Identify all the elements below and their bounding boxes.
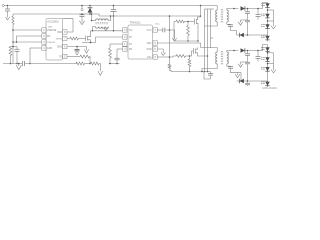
diode D8 return [240,79,244,83]
choke L1 core [96,23,109,24]
node pin1 [12,29,14,31]
resistor R7 [80,55,90,58]
ground bank2 rail [238,62,243,67]
node bank2 C9 [247,50,249,52]
transformer T1 sec bottom lead [226,22,228,24]
transformer T1 core [221,9,223,23]
wire TE net [67,56,80,58]
wire Q1 drain rail [200,6,202,18]
U1 pin 4 box [42,46,46,50]
svg-text:GND: GND [47,48,52,50]
U1 pin labels right [56,32,63,59]
wire bottom bus mid2 [85,63,91,65]
node rail A bottom [207,71,209,73]
wire U1 top to right [63,19,74,32]
ground U2 [161,50,165,55]
U2 pin 1 box [123,42,127,46]
ground bank1 rail [238,20,243,25]
node row2 pin3 [92,30,94,32]
wire U2 pin2 net [96,36,123,38]
resistor R6 gate [70,37,79,40]
svg-text:TPS40211: TPS40211 [130,22,142,25]
resistor R13 [176,55,186,58]
wire bank2 feed [245,45,268,51]
terminal TP1 [81,6,83,11]
resistor R11 [176,20,185,23]
ground bank2 path [235,73,240,78]
svg-text:UCC28910: UCC28910 [47,21,59,24]
U2 labels right [146,30,152,59]
node T2 prim bus [201,71,203,73]
U2 labels left [129,30,133,51]
U1 pin 6 box [63,44,67,48]
transistor Q1 [195,17,201,41]
capacitor C3 series [23,61,25,66]
node pin4 bus [29,63,31,65]
wire bottom bus left [3,63,22,65]
node R2 bus [10,63,12,65]
wire gate2 feed [170,56,177,57]
node choke left [91,13,93,15]
wire rail aux [169,16,171,64]
input terminal J1 [2,4,4,6]
node bank1 C7b [257,8,259,10]
capacitor C6 series [163,28,165,33]
node Q1 drain [200,5,202,7]
node gnd main [18,63,20,65]
node Q3 source [90,42,92,44]
ground input [5,15,9,20]
node choke right [110,15,112,17]
node R8 bus [109,63,111,65]
ground taps 1 [271,23,276,29]
wire pin2 net [17,36,42,42]
wire C4 ext [113,16,115,31]
node R14 bus [189,71,191,73]
wire LED column 2 [267,45,269,88]
choke L1 top winding [96,19,109,21]
wire VCC net [157,29,162,31]
wire sense riser [95,37,97,43]
resistor R4 bus [91,62,100,65]
text Bias [156,24,161,26]
node C14 bus [81,13,83,15]
ground R4 [98,71,103,75]
node D1 top [89,5,91,7]
capacitor C15 snub [227,24,237,35]
transformer T2 core [221,51,223,65]
U1 pin 2 box [42,34,46,38]
transformer T2 primary bottom [202,64,217,72]
U2 pin 6 box [153,47,157,51]
node D1 bottom [89,13,91,15]
wire gate1 feed [174,21,176,23]
wire choke row1 stub [92,20,96,22]
node Q2 source rail [207,55,209,57]
resistor R2 [9,47,17,64]
wire gate2 [186,51,194,56]
node pin2 tie [16,41,18,43]
transformer T2 right winding [227,52,229,64]
transformer T2 left winding [216,52,217,64]
capacitor C7b [256,9,261,20]
U1 pin 3 box [42,40,46,44]
wire U2 pin4 net [117,48,123,50]
node second bus rail [200,15,202,17]
svg-text:GND: GND [146,49,151,51]
wire tap riser 2 [273,53,275,67]
resistor R8 [109,44,112,64]
U1 pin 1 box [42,28,46,32]
LED D11 [261,57,270,61]
wire Q2 drain to T2 [201,47,218,50]
svg-text:TE: TE [59,56,62,58]
capacitor C4 [110,6,116,17]
wire C12 step [204,72,211,80]
wire bottom bus right [109,63,120,65]
node R12 low [187,40,189,42]
wire choke left lead [91,14,93,21]
U2 pin 4 box [123,47,127,51]
transistor Q3 [86,31,91,43]
capacitor C9 [245,51,250,56]
wire rail A [207,9,209,72]
choke L1 bottom winding [96,27,109,29]
node tap L2 [267,20,269,22]
wire U2 pin1 net [110,43,123,45]
diode D9 rectifier [241,48,245,52]
capacitor C12 [208,72,213,80]
U2 pin 2 box [123,35,127,39]
wire DRV net [67,38,70,40]
resistor R14 pulldown [188,56,191,72]
U2 pin 5 box [153,55,157,59]
wire tap riser 1 [273,10,275,23]
LED D10 [261,47,270,51]
capacitor C5 gnd row [67,47,86,53]
wire rail B tick [211,37,214,39]
svg-text:GND: GND [57,46,62,48]
node R2 top tie [12,46,14,48]
node gate1 [187,21,189,23]
node T1 sec [233,8,235,10]
svg-text:FB: FB [47,36,50,38]
wire tap L6 [268,63,274,65]
node bank2 return [247,80,249,82]
op-amp U2 controller TPS40211 [128,22,153,59]
node T1 return [204,71,206,73]
diode D1 clamp [88,6,93,15]
wire rail B [205,9,215,48]
wire tap L5 [268,52,274,54]
node bank1 return [247,34,249,36]
wire pin1 net [13,29,42,31]
wire second bus [13,14,201,16]
wire bank1 return [237,34,268,36]
wire Q1 source sense [174,40,198,42]
wire choke right top lead [108,16,110,21]
capacitor C8 [245,13,250,35]
node C4 pin3 [113,30,115,32]
node bank2 C9b [257,50,259,52]
wire bottom right bus [171,71,211,73]
wire gate1 riser [173,22,175,42]
ground C5 [75,51,79,55]
svg-text:VDD: VDD [57,32,62,34]
LED D5 [261,24,270,28]
node C17 bus [116,63,118,65]
node gate2 [189,55,191,57]
op-amp U1 controller UCC28910 [46,19,63,61]
wire bank1 rail [241,19,248,21]
node C4 top [113,5,115,7]
U2 pin 8 box [153,41,157,45]
ground bias [172,36,176,41]
capacitor C9b [256,51,261,62]
svg-text:CS/ILIM: CS/ILIM [47,42,55,44]
resistor R15 rail [168,64,171,72]
LED D13 [261,81,270,85]
wire tap L1 [268,9,274,11]
ground taps 2 [271,67,276,73]
capacitor C10 [245,55,250,81]
wire bottom bus mid [25,63,77,65]
wire gate1 [185,21,195,23]
ground gnd row [84,47,88,54]
svg-text:GS1: GS1 [147,57,152,59]
svg-text:OC: OC [129,30,133,32]
ground main [16,64,21,70]
transformer T2 sec top lead [227,51,239,53]
resistor R12 pulldown [187,22,190,42]
node choke row1 [91,20,93,22]
capacitor C16 snub [227,66,241,81]
transistor Q2 [194,48,208,57]
node R7 bus [89,63,91,65]
node tap L6 [267,63,269,65]
LED D12 [261,67,270,71]
wire bank2 rail [241,61,248,63]
wire LED column 1 [267,3,269,42]
node pin3 [12,41,14,43]
node C4 bottom [113,15,115,17]
svg-text:VCC: VCC [147,30,152,32]
wire R4 to gnd [99,64,100,72]
transformer T2 sec bottom lead [226,64,228,66]
node tap L1 [267,9,269,11]
transformer T1 sec top lead [227,9,239,11]
ground choke right [104,28,108,31]
node aux top [169,15,171,17]
U1 pin 8 box [63,30,67,34]
wire R7 to bus [89,57,92,64]
diode D2 rectifier [241,6,245,10]
wire tap L2 [268,20,274,22]
wire pin4 net [30,48,42,64]
wire U2 pin6 gnd [157,49,163,50]
U2 pin 7 box [153,28,157,32]
wire U2 pin3 net [91,30,123,32]
U1 pin labels left [47,30,57,50]
node C2 bus [16,63,18,65]
U1 pin 5 box [63,54,67,58]
node Q1 source [197,40,199,42]
wire top input bus [4,5,217,7]
wire choke bottom right lead [106,27,109,28]
wire U2 pin5 net [157,56,169,58]
figure reference text [262,87,277,90]
svg-text:FB: FB [129,49,132,51]
svg-text:GDRV: GDRV [56,38,63,40]
capacitor C11 [245,81,250,86]
node tap L5 [267,52,269,54]
U2 pin 3 box [123,28,127,32]
wire bank2 return [237,80,268,82]
transformer T1 left winding [216,10,217,22]
LED D3 [261,3,270,7]
transformer T1 primary lead [216,6,218,11]
resistor R3 bus [76,62,85,65]
wire Q3 source row [82,42,96,44]
LED D6 [261,35,270,39]
capacitor C17 [115,49,120,64]
wire R6 to gate [79,38,86,40]
svg-text:GD1: GD1 [147,43,152,45]
svg-text:VSENSE: VSENSE [47,30,57,32]
node bank1 C7 [247,8,249,10]
wire pin3 net [13,41,42,43]
wire R1 to pin rail [12,25,14,64]
wire bank1 feed [245,3,268,9]
wire rail T1 return [205,9,218,72]
node T2 sec [233,50,235,52]
capacitor C7 [245,9,250,14]
resistor R1 startup [12,14,14,25]
wire C6 to gnd [165,30,175,36]
ground C14 [79,21,84,25]
capacitor C1 [5,6,10,15]
node C5 [76,46,78,48]
node pin5 rail [169,56,171,58]
LED D4 [261,13,270,17]
svg-text:DBV: DBV [48,26,53,28]
U1 pin 7 box [63,36,67,40]
wire GD1 net [157,43,200,48]
wire choke row2 stub [93,27,96,31]
transformer T1 right winding [227,10,229,22]
svg-text:UDG-151001: UDG-151001 [262,87,277,90]
transformer T2 primary lead [216,48,218,52]
node top bus at C1 [7,5,9,7]
node VCC rail [169,29,171,31]
node TP1 [81,5,83,7]
capacitor C2 [15,47,20,64]
capacitor C14 snubber [80,14,85,23]
diode D7 return [240,33,244,37]
